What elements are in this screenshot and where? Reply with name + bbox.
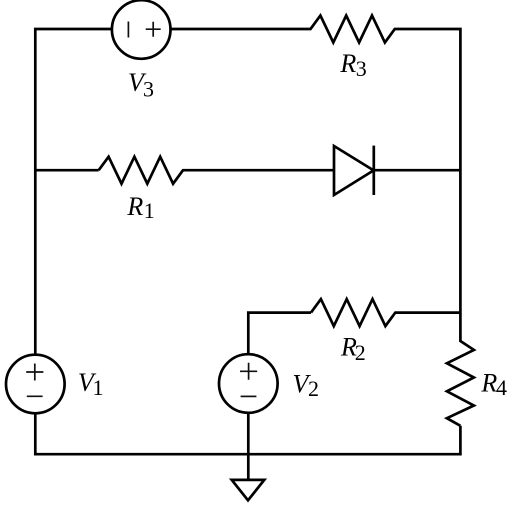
svg-text:2: 2 bbox=[355, 340, 366, 365]
svg-text:1: 1 bbox=[93, 375, 104, 400]
svg-text:2: 2 bbox=[308, 376, 319, 401]
svg-text:R: R bbox=[339, 49, 356, 78]
svg-text:4: 4 bbox=[496, 375, 507, 400]
svg-text:3: 3 bbox=[356, 56, 367, 81]
svg-text:R: R bbox=[480, 369, 497, 398]
svg-text:1: 1 bbox=[144, 198, 155, 223]
svg-text:3: 3 bbox=[143, 77, 154, 102]
svg-text:R: R bbox=[126, 192, 143, 221]
